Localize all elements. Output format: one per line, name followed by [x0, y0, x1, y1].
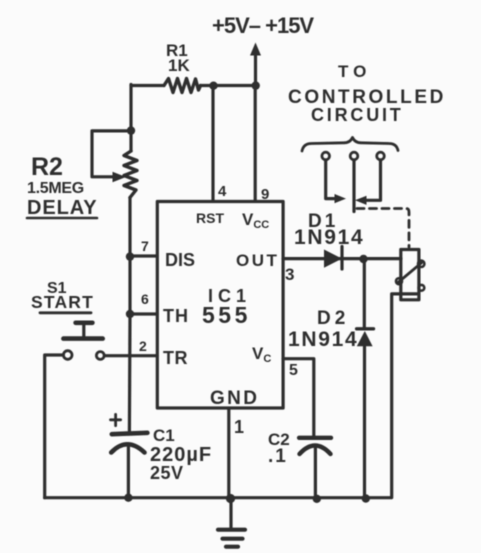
svg-text:1: 1: [234, 417, 244, 437]
capacitor C2 bottom plate: [300, 446, 331, 455]
svg-text:OUT: OUT: [236, 251, 279, 270]
brace: [302, 138, 398, 152]
capacitor C2 top plate: [299, 436, 331, 440]
ground rail: [45, 496, 392, 499]
wire pin 4: [211, 86, 214, 201]
svg-text:5: 5: [289, 362, 298, 379]
relay plunger diagonal: [398, 263, 422, 283]
C1 plus sign: [111, 414, 121, 425]
wire pin 3 OUT: [283, 257, 401, 260]
switch S1 bar: [63, 336, 102, 341]
capacitor C1 bottom plate: [111, 444, 144, 452]
wire pin 7 DIS: [130, 254, 157, 257]
relay coil body: [401, 250, 419, 300]
arrow left contact: [335, 194, 347, 203]
wire pot to pin7 junction: [128, 198, 131, 258]
R2 wiper arrow: [113, 172, 127, 182]
diode D1 cathode bar: [340, 247, 343, 270]
svg-text:1K: 1K: [168, 56, 190, 75]
wire TH junction down to C1: [128, 314, 132, 432]
svg-text:TO: TO: [338, 62, 371, 81]
svg-text:D2: D2: [317, 308, 349, 329]
svg-text:DIS: DIS: [165, 250, 195, 270]
wire S1 left to ground rail: [45, 355, 64, 498]
wire C2 to ground rail: [314, 448, 317, 499]
power arrow: [254, 55, 257, 86]
node R2 top: [127, 126, 135, 134]
svg-text:CIRCUIT: CIRCUIT: [311, 105, 404, 125]
svg-text:.1: .1: [268, 446, 288, 467]
node DIS junction: [126, 252, 134, 260]
svg-text:R2: R2: [31, 153, 63, 181]
potentiometer R2: [124, 151, 137, 198]
wire middle contact: [352, 160, 355, 212]
diode D2: [357, 331, 373, 346]
wire pin 6 TH: [130, 312, 157, 315]
wire junction to TH: [128, 257, 131, 314]
svg-text:3: 3: [285, 265, 294, 284]
wire pin 1 GND: [227, 409, 230, 499]
ground symbol: [218, 530, 245, 547]
wire left contact: [326, 160, 336, 199]
wire pin 5 VC: [283, 359, 314, 436]
svg-text:1N914: 1N914: [288, 328, 358, 351]
op IC1 555 box: [157, 202, 283, 409]
svg-text:TR: TR: [163, 348, 188, 368]
relay loop top: [418, 261, 424, 267]
svg-text:C1: C1: [153, 426, 175, 445]
svg-text:7: 7: [141, 238, 149, 254]
contact terminal middle: [350, 152, 358, 160]
svg-text:6: 6: [141, 291, 149, 307]
node TH junction: [126, 310, 134, 318]
contact terminal right: [377, 152, 385, 160]
svg-text:1.5MEG: 1.5MEG: [27, 180, 84, 197]
svg-text:TH: TH: [163, 306, 189, 326]
resistor R1: [164, 79, 201, 93]
svg-text:25V: 25V: [150, 463, 184, 483]
switch S1 left contact: [63, 351, 72, 360]
wire C1 to ground rail: [127, 446, 130, 498]
switch S1 right contact: [96, 352, 104, 360]
contact terminal left: [322, 152, 330, 160]
node C2 ground: [313, 495, 321, 503]
switch S1 cap: [76, 320, 93, 325]
node C1 ground: [124, 494, 132, 502]
wire top rail left: [131, 84, 164, 87]
ground symbol stem: [229, 499, 232, 530]
svg-text:1N914: 1N914: [294, 226, 364, 249]
underline DELAY: [27, 217, 97, 220]
wire left branch down from top rail: [129, 85, 132, 152]
svg-text:555: 555: [202, 302, 251, 328]
capacitor C1 top plate: [112, 433, 148, 434]
wire top rail right: [201, 84, 256, 87]
relay loop bottom: [419, 285, 425, 291]
diode D2 cathode bar: [357, 327, 374, 330]
svg-text:DELAY: DELAY: [27, 197, 97, 219]
node D2 ground: [362, 494, 370, 502]
wire R2 wiper loop: [92, 131, 131, 177]
node top rail / pin4: [209, 82, 217, 90]
diode D1: [324, 250, 342, 268]
node top rail / pin9: [252, 81, 260, 89]
svg-text:4: 4: [218, 183, 227, 200]
wire right contact: [365, 160, 381, 200]
svg-text:2: 2: [139, 338, 147, 354]
wire pin 9: [254, 86, 257, 201]
node OUT / D2: [359, 255, 367, 263]
dashed link armature: [357, 209, 409, 248]
relay loop left: [396, 278, 402, 284]
arrow right contact: [355, 196, 367, 205]
wire relay to ground rail: [392, 294, 417, 498]
node ground rail pin1: [226, 494, 235, 503]
switch S1 stem: [82, 325, 85, 337]
wire pin 2 TR: [104, 354, 157, 357]
svg-text:+5V– +15V: +5V– +15V: [212, 13, 314, 38]
underline START: [40, 311, 91, 314]
svg-text:GND: GND: [210, 388, 259, 409]
wire D2 branch: [363, 259, 366, 498]
svg-text:RST: RST: [196, 210, 224, 226]
svg-text:START: START: [31, 292, 94, 312]
